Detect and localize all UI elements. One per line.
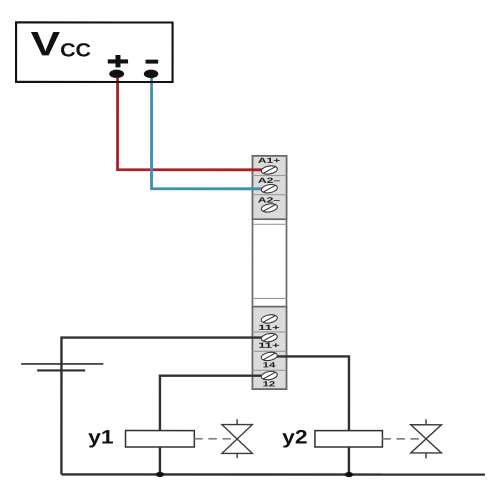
svg-text:y2: y2 [282, 427, 308, 449]
svg-text:14: 14 [263, 360, 277, 369]
svg-text:CC: CC [60, 40, 91, 61]
svg-text:12: 12 [263, 379, 276, 388]
svg-text:A2–: A2– [258, 176, 280, 185]
svg-text:11+: 11+ [258, 323, 281, 332]
svg-text:A2–: A2– [258, 196, 280, 205]
svg-text:V: V [31, 25, 61, 63]
svg-text:A1+: A1+ [258, 156, 281, 165]
svg-text:11+: 11+ [258, 341, 281, 350]
svg-text:y1: y1 [88, 426, 114, 448]
